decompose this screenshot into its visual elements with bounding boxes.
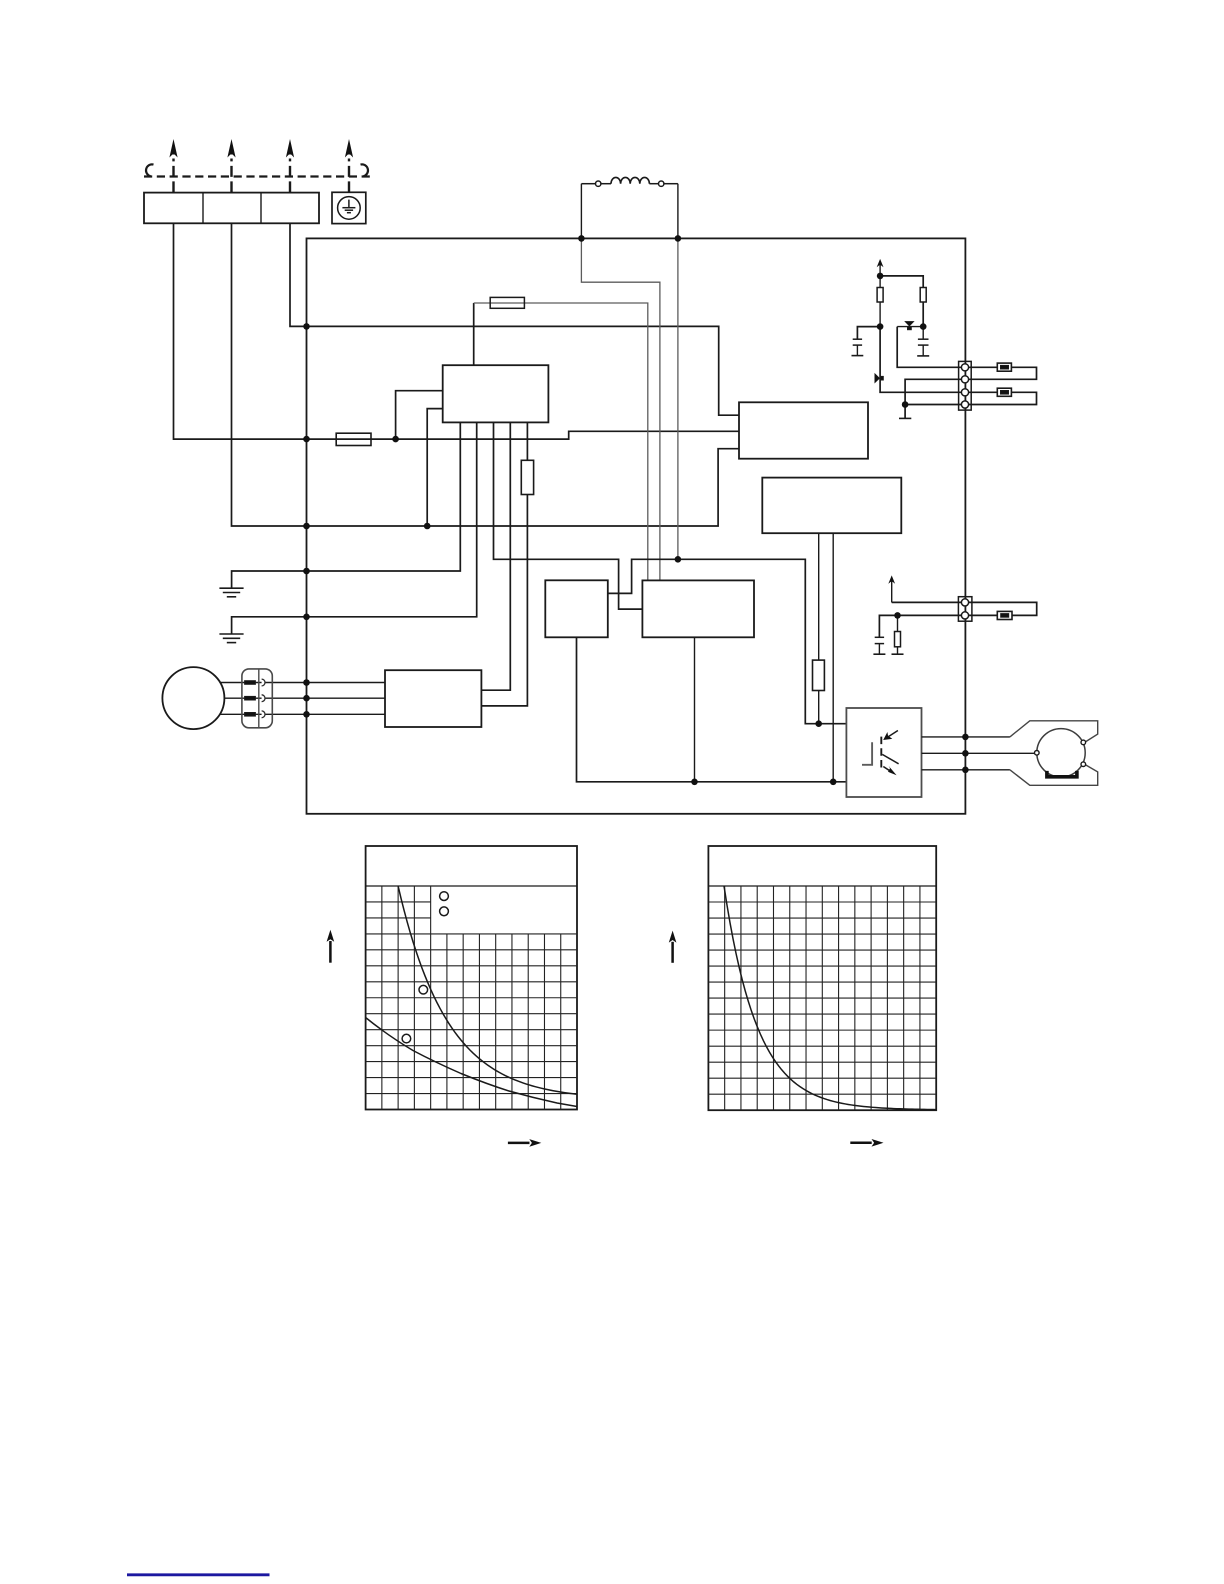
junction dot 7 [303,614,310,621]
junction dot 22 [962,734,969,741]
diode D2 [875,373,884,384]
thermistor TH3 [997,611,1012,619]
wire bus drop left to block U5 pin B [581,238,660,580]
boundary hook right [361,164,368,176]
wire V2 row loop CN2 [892,602,1037,615]
protective earth terminal box [332,192,366,223]
terminal block TB1 divider 2 [260,193,262,224]
IC U3 [762,478,901,534]
compressor terminal pin start [1081,740,1086,745]
wire U1 bottom pin4 to driver U6 [481,422,510,690]
junction dot 10 [303,711,310,718]
wire bus drop right to node P2 [677,238,679,559]
IC U1 [443,365,549,422]
graph1 curve 1 [398,886,577,1094]
wire U3 pin1 to opto PC1 via R4 [818,533,820,724]
wire U1 bottom pin3 to block U5 left pin [494,422,643,609]
graph2 curve [724,886,936,1110]
ground symbol G2 [219,617,306,643]
rail bar under CN1 [899,417,911,419]
wire fuse F2 line to block U5 pin A [474,303,648,580]
junction dot 24 [962,767,969,774]
resistor R6 [521,460,533,494]
graph1 legend circle 1 [440,892,449,901]
wire motor phase V [224,697,385,699]
opto PC1 dashed junction [880,737,882,771]
IC U2 [739,402,868,458]
junction dot 2 [675,235,682,242]
footer rule line [127,1573,270,1576]
wire U1 bottom pin5 to driver U6 via R6 [481,422,527,706]
junction dot 3 [303,323,310,330]
junction dot 8 [303,679,310,686]
graph1 data marker 2 [402,1034,411,1043]
power arrow node V2 [888,575,895,602]
wire to inductor terminal left [581,183,595,185]
wire motor phase U [220,682,385,684]
opto PC1 output arrow [883,766,896,775]
graph1 y axis arrow [327,930,335,963]
opto PC1 gate electrode [862,742,872,765]
wire motor phase W [220,713,385,715]
connector CN3 pin 3 [245,711,265,718]
resistor R5 [892,615,904,654]
compressor terminal guard upper [1010,721,1098,742]
capacitor C1 [852,327,881,356]
supply line arrow 4 [345,139,353,192]
supply line arrow 2 [227,139,235,192]
wire coil to inductor circle right [649,183,658,185]
wire PC1 out row2 to compressor [922,752,1035,754]
motor M1 [162,667,224,729]
resistor R2 [920,288,926,303]
wire U4 right pin node P2 to opto PC1 pin1 [608,559,847,723]
supply line arrow 1 [169,139,177,192]
wire U1 bottom pin1 to ground net1 [307,422,461,571]
junction dot 12 [424,523,431,530]
wire terminal3 to node and IC U2 pin [290,223,739,415]
junction dot 19 [920,323,927,330]
junction dot 5 [303,523,310,530]
wire D1 bar link [897,326,923,328]
junction dot 6 [303,568,310,575]
wire U5 bottom pin [694,637,696,782]
dashed enclosure boundary line [144,175,370,177]
thermistor TH2 [997,388,1011,396]
compressor terminal pin common [1035,751,1040,756]
graph1 data marker 1 [419,985,428,994]
wire U1 bottom pin2 to ground net2 [307,422,477,616]
graph2 x axis arrow [850,1139,883,1147]
connector CN3 pin 2 [245,695,265,702]
wire inductor circle to coil [601,183,611,185]
wire PC1 out row3 [922,769,1010,771]
boundary hook left [146,164,153,176]
supply line arrow 3 [286,139,294,192]
connector CN3 motor [242,669,272,728]
IC U5 [642,580,754,637]
graph1 frame [366,846,577,1110]
junction dot 18 [877,323,884,330]
wire V1 to resistors R1 R2 [880,276,923,327]
compressor terminal pin run [1081,762,1086,767]
power arrow node V1 [877,259,884,276]
fuse F2 [490,297,524,308]
wire L terminal1 to fuse line and IC U2 pin [174,223,740,439]
inductor L1 loop left leg [580,184,582,239]
junction dot 14 [691,779,698,786]
connector CN1 [959,361,972,410]
wire U1 top pin [473,303,475,365]
thermistor TH1 [997,363,1011,371]
junction dot 15 [830,779,837,786]
compressor mount bracket [1047,771,1077,777]
junction dot 23 [962,750,969,757]
IC U4 [545,580,608,637]
compressor body [1037,729,1085,777]
graph1 legend circle 2 [440,907,449,916]
graph2 grid [708,886,936,1110]
opto PC1 triac line [882,754,898,763]
wire R1 branch [879,276,881,327]
compressor terminal guard lower [1010,765,1098,786]
resistor R1 [877,288,883,303]
junction dot 4 [303,436,310,443]
terminal block TB1 [144,193,319,224]
inductor L1 coil [611,177,649,183]
inductor L1 loop right leg [677,184,679,239]
diode D1 [904,321,914,330]
graph1 x axis arrow [508,1139,541,1147]
fuse F1 [336,433,371,445]
wire U4 bottom pin to opto PC1 pin2 [577,637,847,782]
opto PC1 input light arrow [883,731,898,741]
graph2 frame [708,846,936,1110]
junction dot 1 [578,235,585,242]
wire U3 pin2 to node [832,533,834,782]
graph2 header line [708,885,936,887]
wire U1 left pin2 [427,409,443,526]
resistor R4 [813,660,825,690]
wire D1 anode to connector CN1 pin1 [897,327,1036,419]
junction dot 20 [902,401,909,408]
ground symbol G1 [219,571,306,597]
junction dot 11 [392,436,399,443]
connector CN3 pin 1 [245,679,265,686]
capacitor C2 [917,327,929,356]
wire N terminal2 to bus and IC U2 pin [232,223,740,526]
graph1 header line [366,885,577,887]
capacitor C4 [873,615,897,654]
junction dot 21 [894,612,901,619]
IC U6 motor driver [385,670,481,727]
wire inductor circle right to leg [664,183,678,185]
connector CN2 [958,597,972,622]
inductor terminal circle right [659,181,664,186]
wire PC1 out row1 [922,736,1010,738]
wire D2 cathode row3 loop to CN1 pin4 [880,327,1036,405]
inductor terminal circle left [596,181,601,186]
terminal block TB1 divider 1 [202,193,204,224]
graph1 curve 2 [366,1018,577,1107]
graph1 grid [366,886,577,1110]
junction dot 13 [675,556,682,563]
graph2 y axis arrow [669,931,677,963]
opto coupler PC1 box [846,708,921,797]
main board outline [307,238,966,813]
wire U1 left pin1 [396,391,443,439]
junction dot 9 [303,695,310,702]
junction dot 17 [877,273,884,280]
junction dot 16 [815,720,822,727]
